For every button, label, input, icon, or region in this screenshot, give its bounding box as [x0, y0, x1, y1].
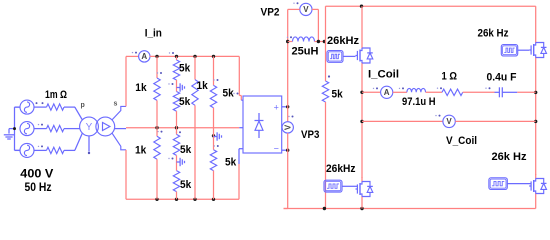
resistor 1k (c3): [192, 80, 198, 106]
svg-text:V: V: [303, 5, 309, 14]
voltmeter VP2: [300, 3, 312, 15]
transformer secondary winding circle (Delta): [96, 117, 115, 136]
label 26k Hz Q4: [492, 151, 527, 163]
label 5k (c2 upper2): [179, 96, 191, 108]
probe dot I_in: [132, 52, 137, 54]
svg-text:V: V: [283, 124, 292, 130]
ground (c4 tap): [214, 132, 222, 140]
wire bus to VSIN1: [15, 106, 21, 108]
gating block G2: [501, 45, 517, 56]
transistor Q1 (left top MOSFET): [356, 44, 373, 68]
svg-text:VP3: VP3: [301, 129, 319, 141]
probe dot bridge input a: [233, 93, 238, 95]
svg-text:I_Coil: I_Coil: [368, 69, 399, 81]
wire ammeter to inductor: [393, 91, 407, 93]
wire G1 to gate: [343, 55, 356, 57]
junction bottom rail bleeder: [323, 207, 326, 210]
probe dot phase B: [38, 124, 43, 126]
probe dot capacitor: [485, 87, 490, 89]
ground (c2 upper tap): [177, 83, 185, 91]
junction mid rail c1: [155, 126, 158, 129]
label 26kHz Q1: [327, 35, 360, 47]
junction bottom rail c3: [193, 198, 196, 201]
wire right leg upper: [535, 6, 537, 38]
wire primary phase B: [75, 128, 80, 130]
svg-text:1k: 1k: [135, 82, 147, 94]
resistor 5k (c2 upper2): [173, 92, 179, 112]
wire secondary bottom pin: [112, 133, 126, 150]
wire left leg bottom: [361, 201, 363, 209]
wire primary phase A diagonal: [75, 107, 83, 120]
AC source VSIN3: [20, 143, 34, 157]
label 400 V: [20, 169, 53, 181]
label 25uH: [292, 45, 319, 57]
svg-text:V_Coil: V_Coil: [446, 135, 477, 147]
resistor 5k (c2 lower2): [173, 171, 179, 192]
svg-text:5k: 5k: [225, 157, 237, 169]
wire c2 to mid rail: [176, 111, 178, 128]
wire inductor to box: [315, 41, 326, 43]
wire c4 top lead: [213, 56, 215, 85]
junction bottom rail c1: [155, 198, 158, 201]
probe dot phase C: [38, 145, 43, 147]
resistor 5k (DC bleeder): [322, 81, 328, 102]
svg-text:s: s: [114, 101, 118, 108]
svg-text:26k Hz: 26k Hz: [492, 151, 527, 163]
junction bottom rail left leg: [360, 207, 363, 210]
svg-text:25uH: 25uH: [292, 45, 319, 57]
probe dot c2 top: [169, 52, 174, 54]
transistor Q4 (right bottom MOSFET): [529, 174, 546, 198]
gating block G4: [489, 178, 507, 190]
voltmeter VP3: [282, 107, 293, 150]
svg-text:1k: 1k: [197, 80, 209, 92]
wire c2 bottom lead: [176, 192, 178, 200]
label 1k (lower): [135, 145, 147, 157]
gating block G1: [327, 51, 343, 63]
wire top rail left: [126, 55, 139, 57]
wire vcoil row left: [362, 120, 443, 122]
probe dot VP3: [288, 116, 293, 118]
resistor 5k (c2 lower1): [173, 134, 179, 155]
wire DC+ to inductor: [288, 41, 293, 43]
ground (source neutral): [4, 129, 15, 139]
label I_in: [145, 27, 162, 39]
junction mid rail c2: [175, 126, 178, 129]
probe dot resistor: [437, 87, 442, 89]
wire right edge riser: [239, 56, 241, 100]
label 1 Ohm: [442, 71, 458, 83]
junction DC+ / VP2 left: [286, 40, 289, 43]
wire resistor to transformer phase 3: [64, 149, 75, 151]
svg-text:5k: 5k: [179, 63, 191, 75]
wire c4 lower upper part: [213, 128, 215, 150]
wire c1 top lead: [156, 56, 158, 78]
junction mid rail c4 ground tap: [212, 134, 215, 137]
wire c1 lower lead: [156, 128, 158, 137]
AC source VSIN1: [20, 100, 34, 114]
wire resistor to capacitor: [463, 91, 495, 93]
probe dot VP2: [293, 2, 298, 4]
wire load row left: [362, 91, 381, 93]
junction right leg load row: [534, 91, 537, 94]
inductor 25uH: [293, 37, 315, 42]
label 50 Hz: [25, 182, 52, 194]
wire primary phase C diagonal: [75, 133, 83, 150]
inductor 97.1uH: [407, 88, 426, 92]
label s: [114, 101, 118, 108]
junction bottom rail c2: [175, 198, 178, 201]
wire H-bridge bottom rail: [284, 208, 536, 210]
junction top rail c3: [193, 55, 196, 58]
transistor Q3 (left bottom MOSFET): [356, 177, 373, 201]
wire right leg mid: [535, 62, 537, 175]
probe dot c2 upper tap: [168, 83, 173, 85]
diode bridge rectifier BD1: [243, 96, 282, 154]
svg-text:5k: 5k: [180, 144, 192, 156]
gating block G3: [324, 180, 342, 192]
wire c2 upper mid: [176, 80, 178, 92]
wire c2 lower mid: [176, 155, 178, 170]
svg-text:50 Hz: 50 Hz: [25, 182, 52, 194]
svg-text:A: A: [384, 88, 390, 97]
voltmeter V_Coil: [443, 115, 455, 127]
svg-text:1m Ω: 1m Ω: [45, 89, 67, 101]
wire box left vertical lower: [325, 102, 327, 209]
wire secondary mid pin: [115, 128, 127, 130]
junction top rail c1: [155, 55, 158, 58]
wire left leg mid: [361, 68, 363, 179]
svg-text:97.1u H: 97.1u H: [402, 96, 436, 108]
svg-text:1 Ω: 1 Ω: [442, 71, 458, 83]
junction top rail c4: [212, 55, 215, 58]
label 5k (c4 upper): [223, 88, 235, 100]
label 5k (bleeder): [332, 89, 344, 101]
wire c2 lower lead: [176, 128, 178, 135]
ammeter I_Coil: [381, 86, 393, 98]
label VP3: [301, 129, 319, 141]
wire bus to VSIN3: [15, 149, 21, 151]
wire bottom riser to bridge: [239, 149, 243, 200]
label 97.1uH: [402, 96, 436, 108]
transistor Q2 (right top MOSFET): [529, 38, 546, 62]
wire G2 to gate: [518, 49, 530, 51]
junction DC+ box edge: [323, 40, 326, 43]
label 5k (c2 lower1): [180, 144, 192, 156]
svg-text:p: p: [81, 102, 85, 109]
label 1k (c3): [197, 80, 209, 92]
wire resistor to transformer phase 1: [64, 106, 75, 108]
wire right leg bottom: [535, 198, 537, 209]
svg-text:400 V: 400 V: [20, 169, 53, 181]
probe dot c1 mid: [157, 131, 162, 133]
label p: [81, 102, 85, 109]
net left riser top (secondary a to top rail): [125, 56, 127, 106]
probe dot c4 top: [213, 79, 218, 81]
svg-text:26kHz: 26kHz: [327, 35, 360, 47]
probe dot 25uH: [287, 36, 292, 38]
junction bridge -: [286, 149, 289, 152]
probe dot V_Coil: [435, 115, 440, 117]
wire DC+ riser: [287, 42, 289, 107]
resistor 5k (c4 lower): [210, 150, 216, 171]
svg-text:5k: 5k: [223, 88, 235, 100]
wire H-bridge top rail: [326, 5, 536, 7]
resistor 1m&#937; phase 2: [47, 125, 65, 131]
label 5k (c4 lower): [225, 157, 237, 169]
wire inductor to resistor: [426, 91, 442, 93]
wire vcoil row right: [455, 120, 535, 122]
wire to bridge pin 2: [239, 127, 243, 129]
probe dot bleeder: [328, 75, 330, 77]
wire c3 top lead: [194, 56, 196, 79]
wire mid rail: [126, 127, 239, 129]
resistor 1k (lower left): [154, 136, 160, 159]
svg-text:5k: 5k: [332, 89, 344, 101]
wire c3 to mid rail: [194, 105, 196, 127]
resistor 1k (upper left): [154, 78, 160, 100]
junction bottom rail c4: [212, 198, 215, 201]
svg-text:+: +: [274, 102, 279, 112]
svg-text:Y: Y: [86, 122, 93, 133]
wire source bus: [15, 107, 21, 150]
wire top rail: [150, 55, 240, 57]
svg-text:26k Hz: 26k Hz: [478, 27, 509, 39]
label 1m&#937;: [45, 89, 67, 101]
svg-text:I_in: I_in: [145, 27, 162, 39]
bridge output + stub: [282, 106, 288, 108]
junction source bus/ground: [13, 127, 16, 130]
probe dots phase A: [36, 102, 44, 104]
label 26k Hz Q2: [478, 27, 509, 39]
wire to bridge pin 1: [241, 99, 243, 101]
probe dot I_Coil left: [373, 87, 378, 89]
wire VP2 left lead: [288, 9, 300, 41]
resistor 1ohm: [442, 89, 463, 95]
svg-text:5k: 5k: [179, 96, 191, 108]
net left riser bottom (secondary c to bottom rail): [125, 150, 127, 200]
wire bottom rail: [126, 198, 239, 200]
svg-text:VP2: VP2: [261, 6, 280, 18]
svg-text:1k: 1k: [135, 145, 147, 157]
label 26kHz Q3: [326, 163, 356, 175]
wire bridge- corner: [284, 208, 288, 210]
bridge output - stub: [282, 149, 288, 151]
resistor 1m&#937; phase 3: [47, 147, 65, 153]
wire secondary top pin: [112, 106, 126, 120]
wire c4 to mid rail: [213, 108, 215, 128]
wire resistor to transformer phase 2: [64, 128, 75, 130]
svg-text:A: A: [141, 52, 147, 61]
probe dot c4 tap: [214, 145, 219, 147]
junction top rail left leg: [360, 5, 363, 8]
AC source VSIN2: [20, 122, 34, 136]
capacitor 0.4uF: [495, 87, 518, 97]
label VP2: [261, 6, 280, 18]
resistor 1m&#937; phase 1: [47, 104, 65, 110]
wire VSIN1 to resistor: [34, 106, 47, 108]
wire box left vertical mid: [325, 42, 327, 82]
wire c1 bottom lead: [156, 159, 158, 199]
svg-text:−: −: [274, 144, 279, 154]
junction left leg vcoil row: [360, 120, 363, 123]
probe dot c2 mid: [176, 131, 181, 133]
wire G4 to gate: [507, 183, 531, 185]
resistor 5k (c2 upper1): [173, 60, 179, 80]
wire left leg upper: [361, 6, 363, 43]
svg-text:26kHz: 26kHz: [326, 163, 356, 175]
junction VP2 right: [317, 40, 320, 43]
wire box left vertical upper: [325, 6, 327, 41]
transformer primary winding circle (Y): [80, 117, 99, 136]
wire VP2 right lead: [312, 9, 318, 41]
junction top rail c2: [175, 55, 178, 58]
wire c2 top lead: [176, 56, 178, 60]
label 5k (c2 upper1): [179, 63, 191, 75]
probe dot c1 upper: [157, 72, 162, 74]
label 1k (upper left): [135, 82, 147, 94]
wire capacitor to right leg: [517, 91, 535, 93]
wire G3 to gate: [342, 185, 357, 187]
wire DC- down: [287, 150, 289, 208]
svg-text:V: V: [446, 117, 452, 126]
junction left leg load row: [360, 91, 363, 94]
wire VSIN3 to resistor: [34, 149, 47, 151]
wire VSIN2 to resistor: [34, 128, 47, 130]
label 0.4uF: [487, 72, 517, 84]
wire c3 lower: [194, 128, 196, 200]
wire c1 mid lead: [156, 100, 158, 127]
label V_Coil: [446, 135, 477, 147]
probe dot c2 lower tap: [168, 158, 173, 160]
transformer primary neutral stub: [88, 136, 90, 154]
probe dot inductor: [399, 87, 404, 89]
svg-text:0.4u F: 0.4u F: [487, 72, 517, 84]
label I_Coil: [368, 69, 399, 81]
ammeter I_in: [139, 51, 150, 62]
label 5k (c2 lower2): [180, 179, 192, 191]
svg-text:5k: 5k: [180, 179, 192, 191]
junction right leg vcoil row: [534, 120, 537, 123]
ground (c2 lower tap): [177, 158, 185, 166]
junction bridge +: [286, 105, 289, 108]
wire c4 bottom lead: [213, 171, 215, 200]
resistor 5k (c4 upper): [210, 85, 216, 107]
